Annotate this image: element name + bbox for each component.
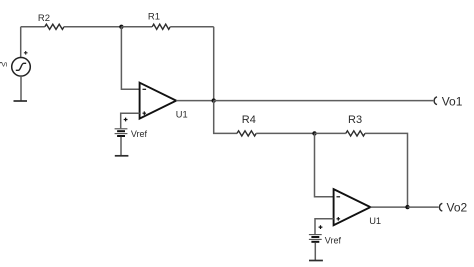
wire battery Vref 1 to ground [120,137,122,156]
svg-text:R3: R3 [348,114,362,126]
svg-text:U1: U1 [369,216,381,226]
svg-text:R1: R1 [148,11,160,22]
node B junction dot [212,98,216,102]
terminal Vo2 [439,203,442,211]
wire node B down and right to R4 [214,101,237,134]
op-amp U1 [140,83,177,119]
wire R4 to node C [256,132,314,134]
wire top rail node A to R1 [121,26,152,28]
wire node B to Vo1 terminal [214,100,434,102]
svg-text:Vref: Vref [325,235,342,245]
stray mark at left edge [0,62,2,64]
wire battery Vref 2 to ground [314,243,316,261]
ground below Vref 2 [309,260,323,262]
wire top-left vertical from R2 down to source Vi [20,27,22,58]
node D junction dot [405,205,409,209]
svg-text:Vi: Vi [1,62,7,69]
wire top rail R2 to node A [64,26,121,28]
wire feedback vertical down to output node B [213,27,215,101]
op-amp U1 (second) [334,189,371,225]
wire source Vi to ground [20,76,22,101]
wire top rail R1 to right corner [170,26,214,28]
svg-text:Vo2: Vo2 [447,201,468,215]
wire op-amp U1 output to node B [176,100,214,102]
wire op-amp U1 (2) output to node D [370,206,407,208]
wire node D to Vo2 terminal [408,206,439,208]
battery Vref 2 [309,235,322,242]
resistor R3 [346,131,365,136]
wire R3 to feedback corner down to node D [365,133,408,207]
plus sign at Vref 2 [319,225,323,229]
svg-text:Vref: Vref [131,129,148,139]
wire op-amp U1 (2) non-inverting input to Vref branch [315,219,334,234]
resistor R2 [45,24,64,29]
node C junction dot [312,131,316,135]
svg-text:Vo1: Vo1 [442,94,463,108]
resistor R4 [237,131,256,136]
wire node C to R3 [315,132,346,134]
resistor R1 [152,24,170,29]
wire op-amp U1 non-inverting input to Vref branch [121,113,140,128]
plus sign at Vref 1 [124,118,128,122]
voltage source Vi [12,58,31,77]
plus sign of source Vi [24,51,28,55]
svg-text:R4: R4 [242,114,256,126]
terminal Vo1 [434,97,437,105]
wire node C down to op-amp U1 (2) inverting input [315,133,334,196]
ground below Vi [14,100,28,102]
svg-text:R2: R2 [38,13,50,24]
battery Vref 1 [115,129,128,136]
wire top rail from corner to R2 [21,26,45,28]
svg-text:U1: U1 [176,110,188,120]
node A junction dot [119,25,123,29]
wire node A down to op-amp U1 inverting input [121,27,139,89]
ground below Vref 1 [115,155,129,157]
